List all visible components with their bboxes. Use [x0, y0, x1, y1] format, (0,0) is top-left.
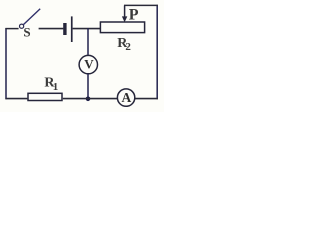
wire slider top horizontal	[124, 4, 158, 6]
rheostat R2	[100, 22, 144, 53]
svg-text:A: A	[122, 90, 132, 105]
wire switch to battery	[39, 28, 64, 30]
slider P	[122, 5, 139, 23]
svg-text:S: S	[23, 24, 30, 39]
svg-text:1: 1	[53, 81, 59, 93]
svg-text:2: 2	[125, 41, 131, 53]
svg-text:V: V	[84, 57, 94, 72]
wire top-left horizontal	[5, 28, 18, 30]
battery	[63, 16, 72, 42]
svg-text:P: P	[129, 7, 139, 24]
wire R1 to ammeter	[63, 98, 118, 100]
wire ammeter to right corner	[135, 98, 158, 100]
wire bottom-left horizontal	[5, 98, 27, 100]
wire battery to R2	[73, 28, 101, 30]
voltmeter V	[79, 55, 97, 73]
junction dot	[86, 97, 91, 102]
ammeter A	[117, 89, 134, 106]
wire left vertical	[5, 28, 7, 99]
switch S	[20, 9, 41, 40]
wire voltmeter to bottom junction	[87, 74, 89, 99]
resistor R1	[28, 75, 62, 100]
wire right vertical	[156, 5, 158, 100]
wire top tap to voltmeter	[87, 28, 89, 56]
